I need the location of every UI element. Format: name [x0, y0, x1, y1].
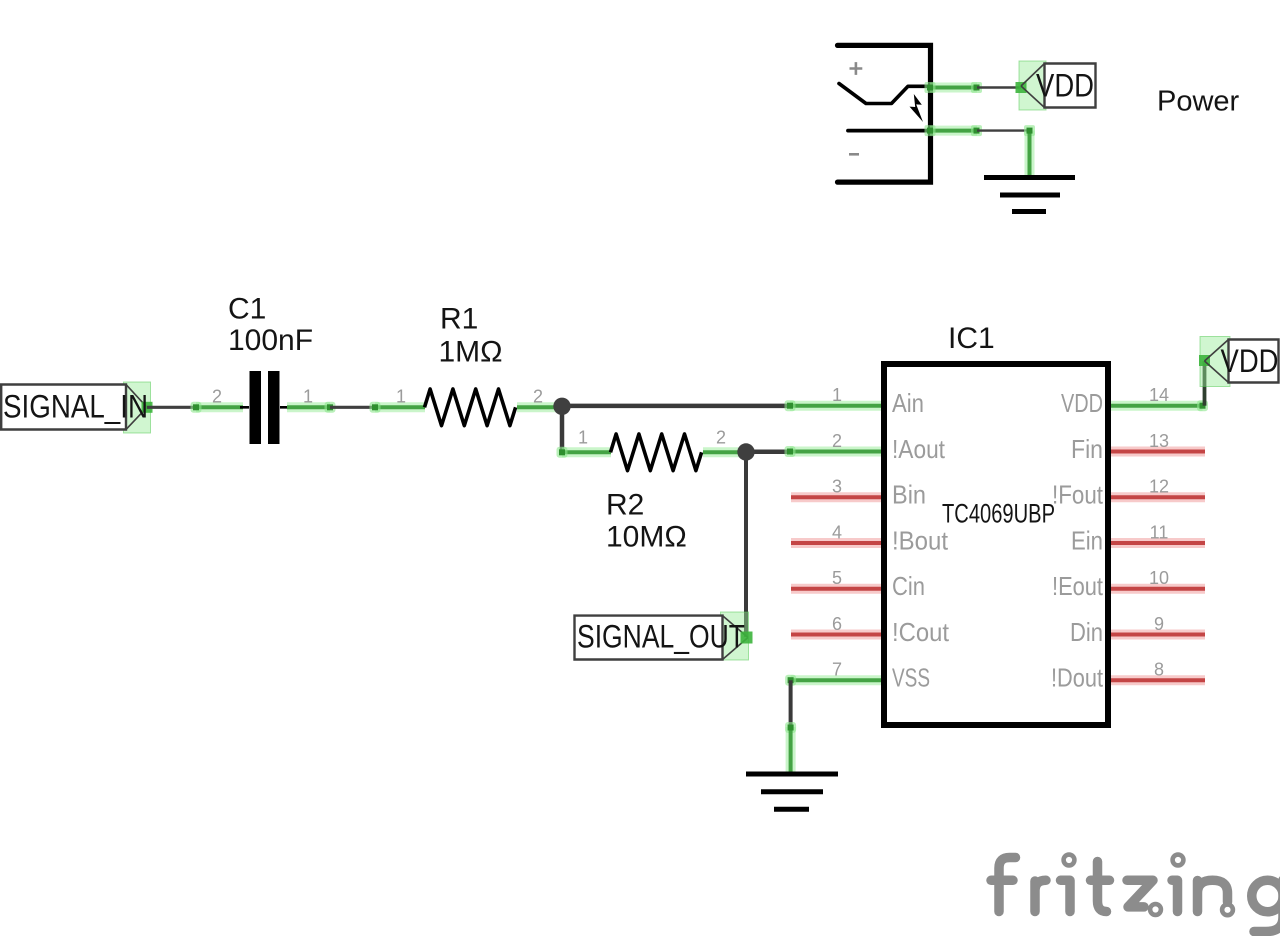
- svg-text:3: 3: [832, 477, 842, 497]
- bendpoint marker: [971, 82, 982, 93]
- SIGNAL_OUT flag box: [575, 616, 723, 660]
- pin 11 Ein red wire: [1111, 538, 1205, 548]
- power jack switch lever (pin +): [839, 84, 931, 104]
- wire: dark segment to ground corner: [977, 129, 1030, 131]
- svg-text:14: 14: [1149, 385, 1169, 405]
- svg-text:7: 7: [832, 660, 842, 680]
- svg-text:1MΩ: 1MΩ: [439, 336, 503, 369]
- svg-text:Power: Power: [1157, 86, 1240, 118]
- svg-text:1: 1: [832, 385, 842, 405]
- junction node B (R2/IC/out): [737, 443, 754, 460]
- wire: dark vertical node B down to SIGNAL_OUT: [744, 452, 748, 637]
- svg-text:VSS: VSS: [892, 663, 930, 693]
- svg-text:4: 4: [832, 523, 842, 543]
- svg-text:8: 8: [1154, 660, 1164, 680]
- svg-text:!Eout: !Eout: [1052, 571, 1104, 601]
- svg-text:Ein: Ein: [1071, 525, 1103, 555]
- svg-text:100nF: 100nF: [228, 324, 313, 357]
- wire: green vertical into ground (VSS): [785, 722, 796, 733]
- wire: dark vertical VSS down: [789, 680, 793, 727]
- wire: green vertical into ground: [1024, 125, 1035, 136]
- wire: green pin segment into IC pin1 Ain: [790, 401, 881, 411]
- wire: green pin segment into IC pin2 !Aout: [790, 447, 881, 457]
- svg-text:VDD: VDD: [1036, 68, 1094, 104]
- ground symbol (VSS): [746, 772, 838, 777]
- svg-text:R1: R1: [440, 303, 478, 336]
- wire: dark segment C1 to R1: [330, 406, 375, 409]
- wire: jack + to VDD flag (green pin segment): [930, 83, 977, 93]
- power jack lightning bolt: [910, 94, 924, 122]
- svg-text:!Cout: !Cout: [892, 617, 950, 647]
- wire: green pin segment from R2 pin2 to node B: [703, 447, 746, 457]
- ground symbol (power): [984, 175, 1075, 180]
- pin 13 Fin red wire: [1111, 447, 1205, 457]
- svg-text:R2: R2: [606, 489, 644, 522]
- svg-text:!Dout: !Dout: [1051, 663, 1104, 693]
- svg-text:Bin: Bin: [892, 480, 926, 510]
- capacitor C1 plates: [250, 371, 262, 444]
- svg-text:2: 2: [533, 387, 543, 407]
- pin 9 Din red wire: [1111, 630, 1205, 640]
- svg-text:1: 1: [396, 387, 406, 407]
- pin 12 !Fout red wire: [1111, 492, 1205, 502]
- svg-text:10: 10: [1149, 568, 1169, 588]
- wire: dark vertical node to R2 row: [560, 406, 565, 452]
- power jack minus pin lead: [848, 129, 931, 133]
- svg-text:!Fout: !Fout: [1052, 480, 1104, 510]
- wire: dark segment to VDD flag: [977, 86, 1021, 88]
- wire: green pin segment into R1 pin1: [375, 402, 425, 412]
- svg-text:10MΩ: 10MΩ: [606, 521, 687, 554]
- svg-text:Ain: Ain: [892, 388, 924, 418]
- svg-text:C1: C1: [228, 293, 266, 326]
- pin 14 VDD green wire: [1111, 401, 1203, 411]
- svg-text:2: 2: [716, 428, 726, 448]
- wire: green pin segment into R2 pin1: [562, 447, 611, 457]
- pin 8 !Dout red wire: [1111, 675, 1205, 685]
- pin 6 !Cout red wire: [791, 630, 881, 640]
- svg-text:SIGNAL_IN: SIGNAL_IN: [3, 389, 148, 425]
- pin 5 Cin red wire: [791, 584, 881, 594]
- svg-text:2: 2: [212, 387, 222, 407]
- wire: green pin segment into C1 pin2: [196, 402, 243, 412]
- svg-text:1: 1: [303, 387, 313, 407]
- wire: dark segment node B to IC pin2: [746, 450, 790, 455]
- resistor R1 zigzag: [425, 389, 516, 426]
- svg-text:12: 12: [1149, 477, 1169, 497]
- capacitor C1 lead stubs: [240, 406, 289, 409]
- SIGNAL_IN flag highlight: [124, 382, 151, 433]
- wire: flag to C1 dark segment: [147, 406, 196, 409]
- connector marker jack -: [925, 125, 936, 136]
- svg-text:VDD: VDD: [1221, 343, 1279, 379]
- svg-text:IC1: IC1: [948, 322, 995, 355]
- svg-text:TC4069UBP: TC4069UBP: [942, 499, 1055, 529]
- wire: dark vertical to VDD flag right: [1203, 361, 1207, 406]
- svg-text:Cin: Cin: [892, 571, 925, 601]
- pin 3 Bin red wire: [791, 492, 881, 502]
- svg-text:11: 11: [1150, 523, 1169, 543]
- svg-text:1: 1: [578, 428, 588, 448]
- svg-text:13: 13: [1149, 431, 1169, 451]
- SIGNAL_OUT flag highlight: [721, 612, 749, 660]
- power jack minus sign: [849, 153, 859, 156]
- svg-text:!Bout: !Bout: [892, 525, 949, 555]
- svg-text:9: 9: [1154, 614, 1164, 634]
- connector marker jack +: [925, 82, 936, 93]
- VDD flag right highlight: [1200, 337, 1230, 387]
- pin 7 VSS green wire: [791, 675, 881, 685]
- svg-text:!Aout: !Aout: [892, 434, 946, 464]
- svg-text:SIGNAL_OUT: SIGNAL_OUT: [577, 619, 745, 655]
- svg-text:5: 5: [832, 568, 842, 588]
- VDD flag (power) box: [1045, 64, 1096, 108]
- wire: jack - to ground, green pin segment: [930, 126, 977, 136]
- wire: green pin segment from C1 pin1: [287, 402, 330, 412]
- wire: green pin segment from R1 pin2 to node: [517, 402, 562, 412]
- power jack J1 body: [838, 45, 931, 182]
- junction node A (R1/R2/IC): [553, 398, 570, 415]
- svg-text:VDD: VDD: [1061, 388, 1103, 418]
- pin 10 !Eout red wire: [1111, 584, 1205, 594]
- resistor R2 zigzag: [611, 434, 702, 471]
- VDD flag (power) highlight: [1019, 61, 1046, 110]
- svg-text:6: 6: [832, 614, 842, 634]
- IC1 body: [884, 364, 1108, 725]
- svg-text:Fin: Fin: [1071, 434, 1103, 464]
- VDD flag right box: [1229, 340, 1279, 383]
- fritzing watermark: [991, 855, 1280, 932]
- wire: dark segment node to IC pin1: [562, 404, 790, 409]
- svg-text:2: 2: [832, 431, 842, 451]
- pin 4 !Bout red wire: [791, 538, 881, 548]
- svg-text:Din: Din: [1070, 617, 1103, 647]
- SIGNAL_IN flag box: [1, 385, 126, 430]
- power jack plus sign: [850, 62, 863, 75]
